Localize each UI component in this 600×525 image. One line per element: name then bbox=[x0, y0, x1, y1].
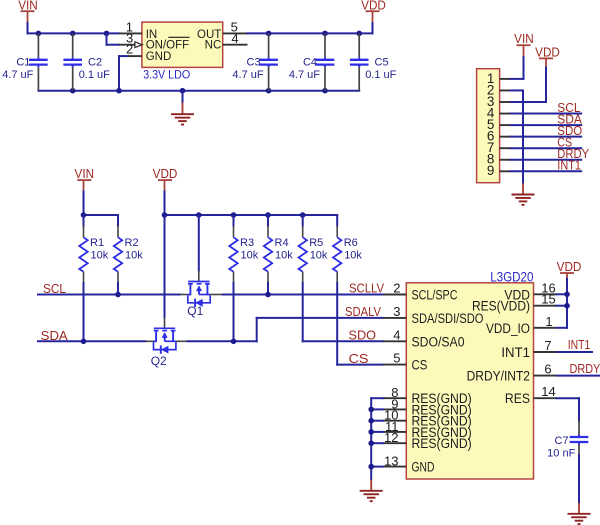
wire net SDALV bbox=[176, 318, 383, 341]
wire ground stem (bus) bbox=[370, 480, 372, 491]
transistor Q1 bbox=[187, 271, 210, 319]
junction R3/SDALV bbox=[231, 339, 237, 345]
junction RES(GND) bus bbox=[368, 429, 374, 435]
svg-text:C2: C2 bbox=[88, 57, 102, 69]
svg-text:0.1 uF: 0.1 uF bbox=[79, 69, 110, 81]
wire net SCLLV bbox=[210, 294, 383, 296]
junction C3/bottom rail bbox=[266, 88, 272, 94]
pin 2 of J1 bbox=[487, 82, 511, 97]
wire R2 to SCL bbox=[117, 283, 119, 295]
wire VDD to pin 3 bbox=[511, 58, 547, 102]
resistor R1 bbox=[79, 215, 108, 283]
junction VDD rail/R4 bbox=[265, 212, 271, 218]
pin 8 of J1 bbox=[487, 152, 511, 167]
wire net INT1 bbox=[557, 351, 592, 353]
junction C2/bottom rail bbox=[70, 88, 76, 94]
junction VDD rail/R5 bbox=[300, 212, 306, 218]
svg-text:SDO/SA0: SDO/SA0 bbox=[412, 334, 465, 349]
svg-text:SCL/SPC: SCL/SPC bbox=[412, 288, 458, 303]
svg-text:R2: R2 bbox=[125, 237, 139, 249]
svg-text:4: 4 bbox=[393, 327, 400, 342]
svg-text:SDO: SDO bbox=[349, 328, 377, 343]
junction VDD rail/Q2 gate bbox=[162, 212, 168, 218]
wire regulator output rail bbox=[248, 32, 373, 34]
wire pin 2 to ground bbox=[511, 90, 524, 194]
power flag VIN (top left) bbox=[18, 0, 38, 12]
junction R4/SCLLV bbox=[265, 292, 271, 298]
svg-text:VDD: VDD bbox=[153, 166, 178, 181]
pin 3 ON/OFF of U1 bbox=[119, 30, 190, 51]
pin 6 of J1 bbox=[487, 129, 511, 144]
resistor R2 bbox=[114, 215, 143, 283]
wire C7 to ground bbox=[578, 455, 580, 514]
svg-text:R6: R6 bbox=[344, 237, 358, 249]
junction VDD/pin16 bbox=[564, 292, 570, 298]
svg-text:10k: 10k bbox=[91, 250, 109, 262]
pin 12 RES(GND) of U2 bbox=[383, 430, 472, 451]
capacitor C3 bbox=[232, 33, 277, 90]
junction VIN rail/R1 bbox=[81, 212, 87, 218]
svg-text:13: 13 bbox=[384, 454, 398, 469]
svg-text:L3GD20: L3GD20 bbox=[490, 269, 533, 284]
svg-text:Q2: Q2 bbox=[151, 354, 167, 368]
pin 7 of J1 bbox=[487, 140, 511, 155]
transistor Q2 bbox=[151, 317, 176, 368]
wire net SDO bbox=[303, 340, 383, 342]
wire net CS bbox=[337, 364, 383, 366]
svg-text:3.3V LDO: 3.3V LDO bbox=[143, 69, 190, 81]
IC U2 L3GD20 body bbox=[406, 269, 533, 479]
junction C3/out rail bbox=[266, 31, 272, 37]
svg-text:C4: C4 bbox=[303, 57, 317, 69]
wire R6 to CS bbox=[336, 283, 338, 365]
pin 3 SDA/SDI/SDO of U2 bbox=[383, 304, 484, 326]
svg-text:DRDY: DRDY bbox=[570, 361, 600, 376]
wire R5 to SDO bbox=[302, 283, 304, 341]
wire VDD pullup rail bbox=[165, 214, 338, 216]
svg-text:CS: CS bbox=[349, 351, 369, 366]
svg-text:R4: R4 bbox=[275, 237, 289, 249]
wire net SDO (connector pin 6) bbox=[511, 136, 582, 138]
pin 11 RES(GND) of U2 bbox=[383, 419, 472, 440]
svg-text:9: 9 bbox=[487, 163, 495, 178]
capacitor C7 bbox=[547, 420, 588, 459]
svg-text:CS: CS bbox=[412, 358, 428, 373]
wire net CS (connector pin 7) bbox=[511, 147, 582, 149]
wire VIN pullup rail bbox=[84, 214, 119, 216]
wire VDD stem (top) bbox=[372, 11, 374, 33]
capacitor C4 bbox=[289, 33, 334, 90]
svg-text:GND: GND bbox=[412, 460, 435, 475]
pin 5 OUT of U1 bbox=[197, 20, 247, 42]
svg-text:4: 4 bbox=[231, 31, 238, 46]
pin 15 RES(VDD) of U2 bbox=[472, 292, 557, 314]
capacitor C1 bbox=[2, 33, 47, 90]
wire net DRDY (connector pin 8) bbox=[511, 159, 582, 161]
wire VIN stem bbox=[27, 11, 29, 33]
svg-text:C3: C3 bbox=[247, 57, 261, 69]
pin 4 SDO/SA0 of U2 bbox=[383, 327, 465, 349]
wire R1 to SDA bbox=[83, 283, 85, 341]
svg-text:4.7 uF: 4.7 uF bbox=[232, 69, 263, 81]
ground (IC) bbox=[360, 491, 383, 501]
junction pin3 branch bbox=[104, 31, 110, 37]
wire net SDA bbox=[38, 340, 154, 342]
svg-text:VDD_IO: VDD_IO bbox=[486, 321, 530, 336]
pin 10 RES(GND) of U2 bbox=[383, 408, 472, 429]
wire bottom ground rail bbox=[38, 90, 359, 92]
svg-text:VDD: VDD bbox=[557, 259, 582, 274]
wire R4 to SCLLV bbox=[267, 283, 269, 295]
junction ground stem/bottom rail bbox=[180, 88, 186, 94]
wire RES pin to C7 bbox=[557, 398, 579, 420]
junction R1/SDA bbox=[81, 339, 87, 345]
wire branch to ON/OFF pin bbox=[107, 33, 120, 44]
svg-text:DRDY/INT2: DRDY/INT2 bbox=[467, 369, 530, 384]
svg-text:10k: 10k bbox=[275, 250, 293, 262]
wire net DRDY bbox=[557, 375, 600, 377]
svg-text:3: 3 bbox=[393, 304, 400, 319]
junction GND pin/bus bbox=[368, 464, 374, 470]
junction C5/out rail bbox=[356, 31, 362, 37]
svg-text:10k: 10k bbox=[344, 250, 362, 262]
pin 1 IN of U1 bbox=[119, 20, 157, 42]
pin 8 RES(GND) of U2 bbox=[383, 385, 472, 406]
wire RES(GND) bus bbox=[371, 398, 383, 479]
junction VDD rail/R3 bbox=[231, 212, 237, 218]
svg-text:RES(VDD): RES(VDD) bbox=[472, 299, 530, 314]
wire VDD to pins 16/15/1 bbox=[557, 273, 567, 328]
svg-text:4.7 uF: 4.7 uF bbox=[2, 69, 33, 81]
svg-text:VDD: VDD bbox=[535, 44, 560, 59]
svg-text:NC: NC bbox=[205, 40, 222, 52]
svg-text:INT1: INT1 bbox=[501, 345, 530, 360]
svg-text:15: 15 bbox=[541, 292, 555, 307]
pin 2 SCL/SPC of U2 bbox=[383, 281, 458, 303]
svg-text:R3: R3 bbox=[240, 237, 254, 249]
power flag VDD (middle) bbox=[153, 166, 178, 181]
pin 4 NC of U1 bbox=[205, 31, 248, 52]
svg-text:R1: R1 bbox=[90, 237, 104, 249]
capacitor C2 bbox=[63, 33, 110, 90]
junction RES(GND) bus bbox=[368, 418, 374, 424]
pin 5 of J1 bbox=[487, 117, 511, 132]
svg-text:C5: C5 bbox=[375, 57, 389, 69]
svg-text:12: 12 bbox=[384, 430, 398, 445]
pin 14 RES of U2 bbox=[505, 384, 557, 406]
svg-text:5: 5 bbox=[393, 351, 400, 366]
svg-text:SCLLV: SCLLV bbox=[349, 281, 384, 296]
power flag VDD (connector) bbox=[535, 44, 560, 59]
svg-text:GND: GND bbox=[146, 51, 172, 63]
pin 7 INT1 of U2 bbox=[501, 338, 557, 360]
svg-text:VIN: VIN bbox=[514, 31, 534, 46]
pin 5 CS of U2 bbox=[383, 351, 427, 373]
svg-text:4.7 uF: 4.7 uF bbox=[289, 69, 320, 81]
junction C4/bottom rail bbox=[322, 88, 328, 94]
svg-text:2: 2 bbox=[126, 42, 133, 57]
pin 4 of J1 bbox=[487, 105, 511, 120]
svg-text:R5: R5 bbox=[309, 237, 323, 249]
junction RES(GND) bus bbox=[368, 407, 374, 413]
wire R3 to SDALV bbox=[233, 283, 235, 341]
svg-text:1: 1 bbox=[545, 314, 552, 329]
wire VIN to pin 1 bbox=[511, 45, 524, 79]
svg-text:ON/OFF: ON/OFF bbox=[146, 40, 189, 52]
wire VDD stem (middle) bbox=[164, 180, 166, 215]
regulator U1 3.3V LDO body bbox=[142, 22, 223, 81]
pin 13 GND of U2 bbox=[383, 454, 435, 475]
svg-text:RES: RES bbox=[505, 391, 530, 406]
resistor R3 bbox=[229, 215, 258, 283]
power flag VIN (middle) bbox=[75, 166, 95, 181]
power flag VIN (connector) bbox=[514, 31, 534, 46]
junction RES(GND) bus bbox=[368, 440, 374, 446]
connector J1 body bbox=[477, 69, 500, 183]
svg-text:2: 2 bbox=[393, 281, 400, 296]
pin 16 VDD of U2 bbox=[504, 280, 557, 302]
svg-text:10 nF: 10 nF bbox=[547, 447, 575, 459]
junction VDD rail/Q1 gate bbox=[196, 212, 202, 218]
svg-text:C7: C7 bbox=[555, 435, 569, 447]
svg-text:0.1 uF: 0.1 uF bbox=[365, 69, 396, 81]
wire ground stem (regulator) bbox=[182, 91, 184, 115]
pin 9 RES(GND) of U2 bbox=[383, 396, 472, 417]
wire net SCL (connector pin 4) bbox=[511, 113, 582, 115]
capacitor C5 bbox=[350, 33, 397, 90]
svg-text:6: 6 bbox=[544, 362, 551, 377]
wire net SDA (connector pin 5) bbox=[511, 124, 582, 126]
pin 3 of J1 bbox=[487, 94, 511, 109]
junction R2/SCL bbox=[115, 292, 121, 298]
svg-text:Q1: Q1 bbox=[187, 304, 203, 318]
power flag VDD (top) bbox=[361, 0, 386, 12]
svg-text:INT1: INT1 bbox=[568, 337, 591, 352]
pin 9 of J1 bbox=[487, 163, 511, 178]
svg-text:RES(GND): RES(GND) bbox=[412, 436, 472, 451]
svg-text:VIN: VIN bbox=[75, 166, 95, 181]
junction C1/top rail bbox=[36, 31, 42, 37]
pin 2 GND of U1 bbox=[126, 42, 171, 63]
svg-text:14: 14 bbox=[541, 384, 555, 399]
wire Q2 gate from VDD rail bbox=[164, 215, 166, 317]
wire VIN stem (middle) bbox=[83, 180, 85, 215]
wire net INT1 (connector pin 9) bbox=[511, 170, 582, 172]
resistor R6 bbox=[333, 215, 362, 283]
wire GND pin riser bbox=[119, 56, 128, 91]
ground (connector) bbox=[512, 195, 535, 205]
junction C2/top rail bbox=[70, 31, 76, 37]
svg-text:SDALV: SDALV bbox=[345, 304, 381, 319]
svg-text:10k: 10k bbox=[241, 250, 259, 262]
ground (C7) bbox=[568, 514, 591, 524]
resistor R5 bbox=[299, 215, 328, 283]
resistor R4 bbox=[264, 215, 293, 283]
svg-text:10k: 10k bbox=[310, 250, 328, 262]
pin 1 of J1 bbox=[487, 71, 511, 86]
junction C4/out rail bbox=[322, 31, 328, 37]
ground (regulator) bbox=[171, 114, 194, 124]
svg-text:INT1: INT1 bbox=[557, 159, 581, 173]
power flag VDD (IC) bbox=[557, 259, 582, 274]
junction GND riser/bottom rail bbox=[116, 88, 122, 94]
svg-text:C1: C1 bbox=[16, 57, 30, 69]
svg-text:7: 7 bbox=[544, 338, 551, 353]
svg-text:10k: 10k bbox=[125, 250, 143, 262]
pin 1 VDD_IO of U2 bbox=[486, 314, 557, 336]
wire net SCL bbox=[38, 294, 188, 296]
junction VDD/pin15 bbox=[564, 303, 570, 309]
wire Q1 gate from VDD rail bbox=[198, 215, 200, 271]
pin 6 DRDY/INT2 of U2 bbox=[467, 362, 557, 384]
wire top input rail bbox=[28, 32, 120, 34]
